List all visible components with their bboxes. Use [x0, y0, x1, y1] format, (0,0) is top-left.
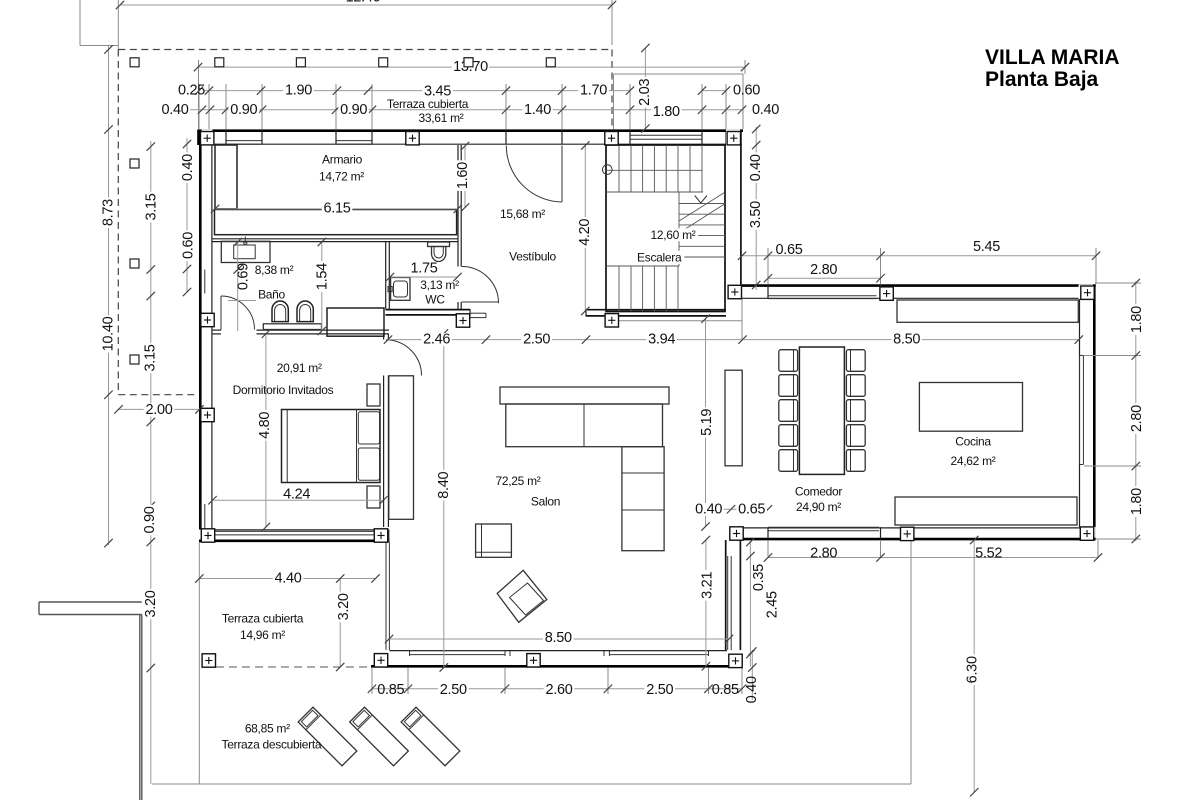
- svg-text:0.85: 0.85: [712, 682, 739, 698]
- svg-text:12.40: 12.40: [346, 0, 381, 6]
- svg-text:0.90: 0.90: [230, 102, 257, 118]
- svg-text:Vestíbulo: Vestíbulo: [509, 250, 556, 264]
- svg-text:0.40: 0.40: [744, 676, 760, 703]
- svg-text:0.85: 0.85: [377, 682, 404, 698]
- svg-text:1.80: 1.80: [1129, 488, 1145, 515]
- svg-text:4.24: 4.24: [283, 486, 310, 502]
- svg-text:4.20: 4.20: [577, 219, 593, 246]
- svg-text:1.80: 1.80: [1129, 306, 1145, 333]
- svg-text:24,90 m²: 24,90 m²: [796, 500, 841, 514]
- svg-text:8.40: 8.40: [436, 471, 452, 498]
- svg-text:3.20: 3.20: [143, 590, 159, 617]
- svg-text:2.50: 2.50: [646, 682, 673, 698]
- svg-text:1.75: 1.75: [410, 261, 437, 277]
- svg-text:0.40: 0.40: [161, 102, 188, 118]
- svg-text:33,61 m²: 33,61 m²: [419, 111, 464, 125]
- svg-text:72,25 m²: 72,25 m²: [496, 474, 541, 488]
- svg-text:0.69: 0.69: [236, 263, 252, 290]
- svg-text:Planta Baja: Planta Baja: [985, 68, 1099, 91]
- svg-text:2.60: 2.60: [545, 682, 572, 698]
- svg-text:4.40: 4.40: [274, 571, 301, 587]
- svg-text:2.80: 2.80: [1129, 405, 1145, 432]
- svg-text:15,68 m²: 15,68 m²: [500, 207, 545, 221]
- svg-text:WC: WC: [425, 293, 445, 307]
- svg-text:Salon: Salon: [531, 495, 560, 509]
- svg-text:2.50: 2.50: [523, 332, 550, 348]
- svg-text:3.15: 3.15: [144, 193, 160, 220]
- svg-text:1.40: 1.40: [524, 102, 551, 118]
- svg-text:0.60: 0.60: [181, 232, 197, 259]
- svg-text:3,13 m²: 3,13 m²: [420, 278, 459, 292]
- svg-text:0.60: 0.60: [733, 83, 760, 99]
- svg-text:14,72 m²: 14,72 m²: [319, 170, 364, 184]
- svg-text:Armario: Armario: [322, 153, 363, 167]
- svg-text:2.80: 2.80: [810, 546, 837, 562]
- svg-text:Terraza cubierta: Terraza cubierta: [222, 612, 304, 626]
- svg-text:Cocina: Cocina: [955, 435, 991, 449]
- svg-text:6.30: 6.30: [964, 656, 980, 683]
- svg-text:0.40: 0.40: [748, 154, 764, 181]
- svg-text:0.40: 0.40: [752, 102, 779, 118]
- svg-text:5.52: 5.52: [975, 546, 1002, 562]
- svg-text:2.80: 2.80: [810, 262, 837, 278]
- svg-text:1.90: 1.90: [285, 83, 312, 99]
- svg-text:2.03: 2.03: [637, 79, 653, 106]
- svg-text:14,96 m²: 14,96 m²: [240, 628, 285, 642]
- svg-text:0.65: 0.65: [775, 242, 802, 258]
- svg-text:1.70: 1.70: [580, 83, 607, 99]
- svg-text:6.15: 6.15: [323, 201, 350, 217]
- svg-text:2.00: 2.00: [145, 402, 172, 418]
- svg-text:Comedor: Comedor: [795, 485, 843, 499]
- svg-text:2.50: 2.50: [440, 682, 467, 698]
- svg-text:24,62 m²: 24,62 m²: [951, 454, 996, 468]
- svg-text:8.50: 8.50: [893, 332, 920, 348]
- svg-text:3.20: 3.20: [336, 593, 352, 620]
- svg-text:3.94: 3.94: [648, 332, 675, 348]
- svg-text:8.50: 8.50: [545, 630, 572, 646]
- svg-text:10.40: 10.40: [101, 316, 117, 351]
- svg-text:0.25: 0.25: [178, 83, 205, 99]
- svg-text:1.80: 1.80: [653, 104, 680, 120]
- svg-text:8,38 m²: 8,38 m²: [255, 263, 294, 277]
- svg-text:5.19: 5.19: [699, 409, 715, 436]
- svg-text:0.40: 0.40: [695, 502, 722, 518]
- svg-text:3.15: 3.15: [143, 344, 159, 371]
- svg-text:Baño: Baño: [258, 288, 285, 302]
- svg-text:VILLA MARIA: VILLA MARIA: [985, 46, 1120, 69]
- svg-text:68,85 m²: 68,85 m²: [245, 722, 290, 736]
- svg-text:0.35: 0.35: [751, 564, 767, 591]
- svg-text:1.60: 1.60: [455, 162, 471, 189]
- svg-text:0.40: 0.40: [180, 154, 196, 181]
- svg-text:1.54: 1.54: [314, 263, 330, 290]
- svg-text:20,91 m²: 20,91 m²: [277, 361, 322, 375]
- svg-text:Escalera: Escalera: [637, 250, 682, 264]
- svg-text:Terraza descubierta: Terraza descubierta: [222, 737, 322, 751]
- svg-text:2.46: 2.46: [423, 332, 450, 348]
- svg-text:12,60 m²: 12,60 m²: [651, 228, 696, 242]
- svg-text:0.90: 0.90: [142, 506, 158, 533]
- svg-text:3.21: 3.21: [699, 572, 715, 599]
- svg-text:Dormitorio Invitados: Dormitorio Invitados: [233, 383, 334, 397]
- svg-text:3.50: 3.50: [748, 201, 764, 228]
- svg-text:0.90: 0.90: [340, 102, 367, 118]
- svg-text:2.45: 2.45: [764, 591, 780, 618]
- svg-text:Terraza cubierta: Terraza cubierta: [387, 97, 469, 111]
- svg-text:4.80: 4.80: [257, 412, 273, 439]
- svg-text:5.45: 5.45: [973, 239, 1000, 255]
- svg-text:8.73: 8.73: [101, 199, 117, 226]
- svg-text:0.65: 0.65: [738, 502, 765, 518]
